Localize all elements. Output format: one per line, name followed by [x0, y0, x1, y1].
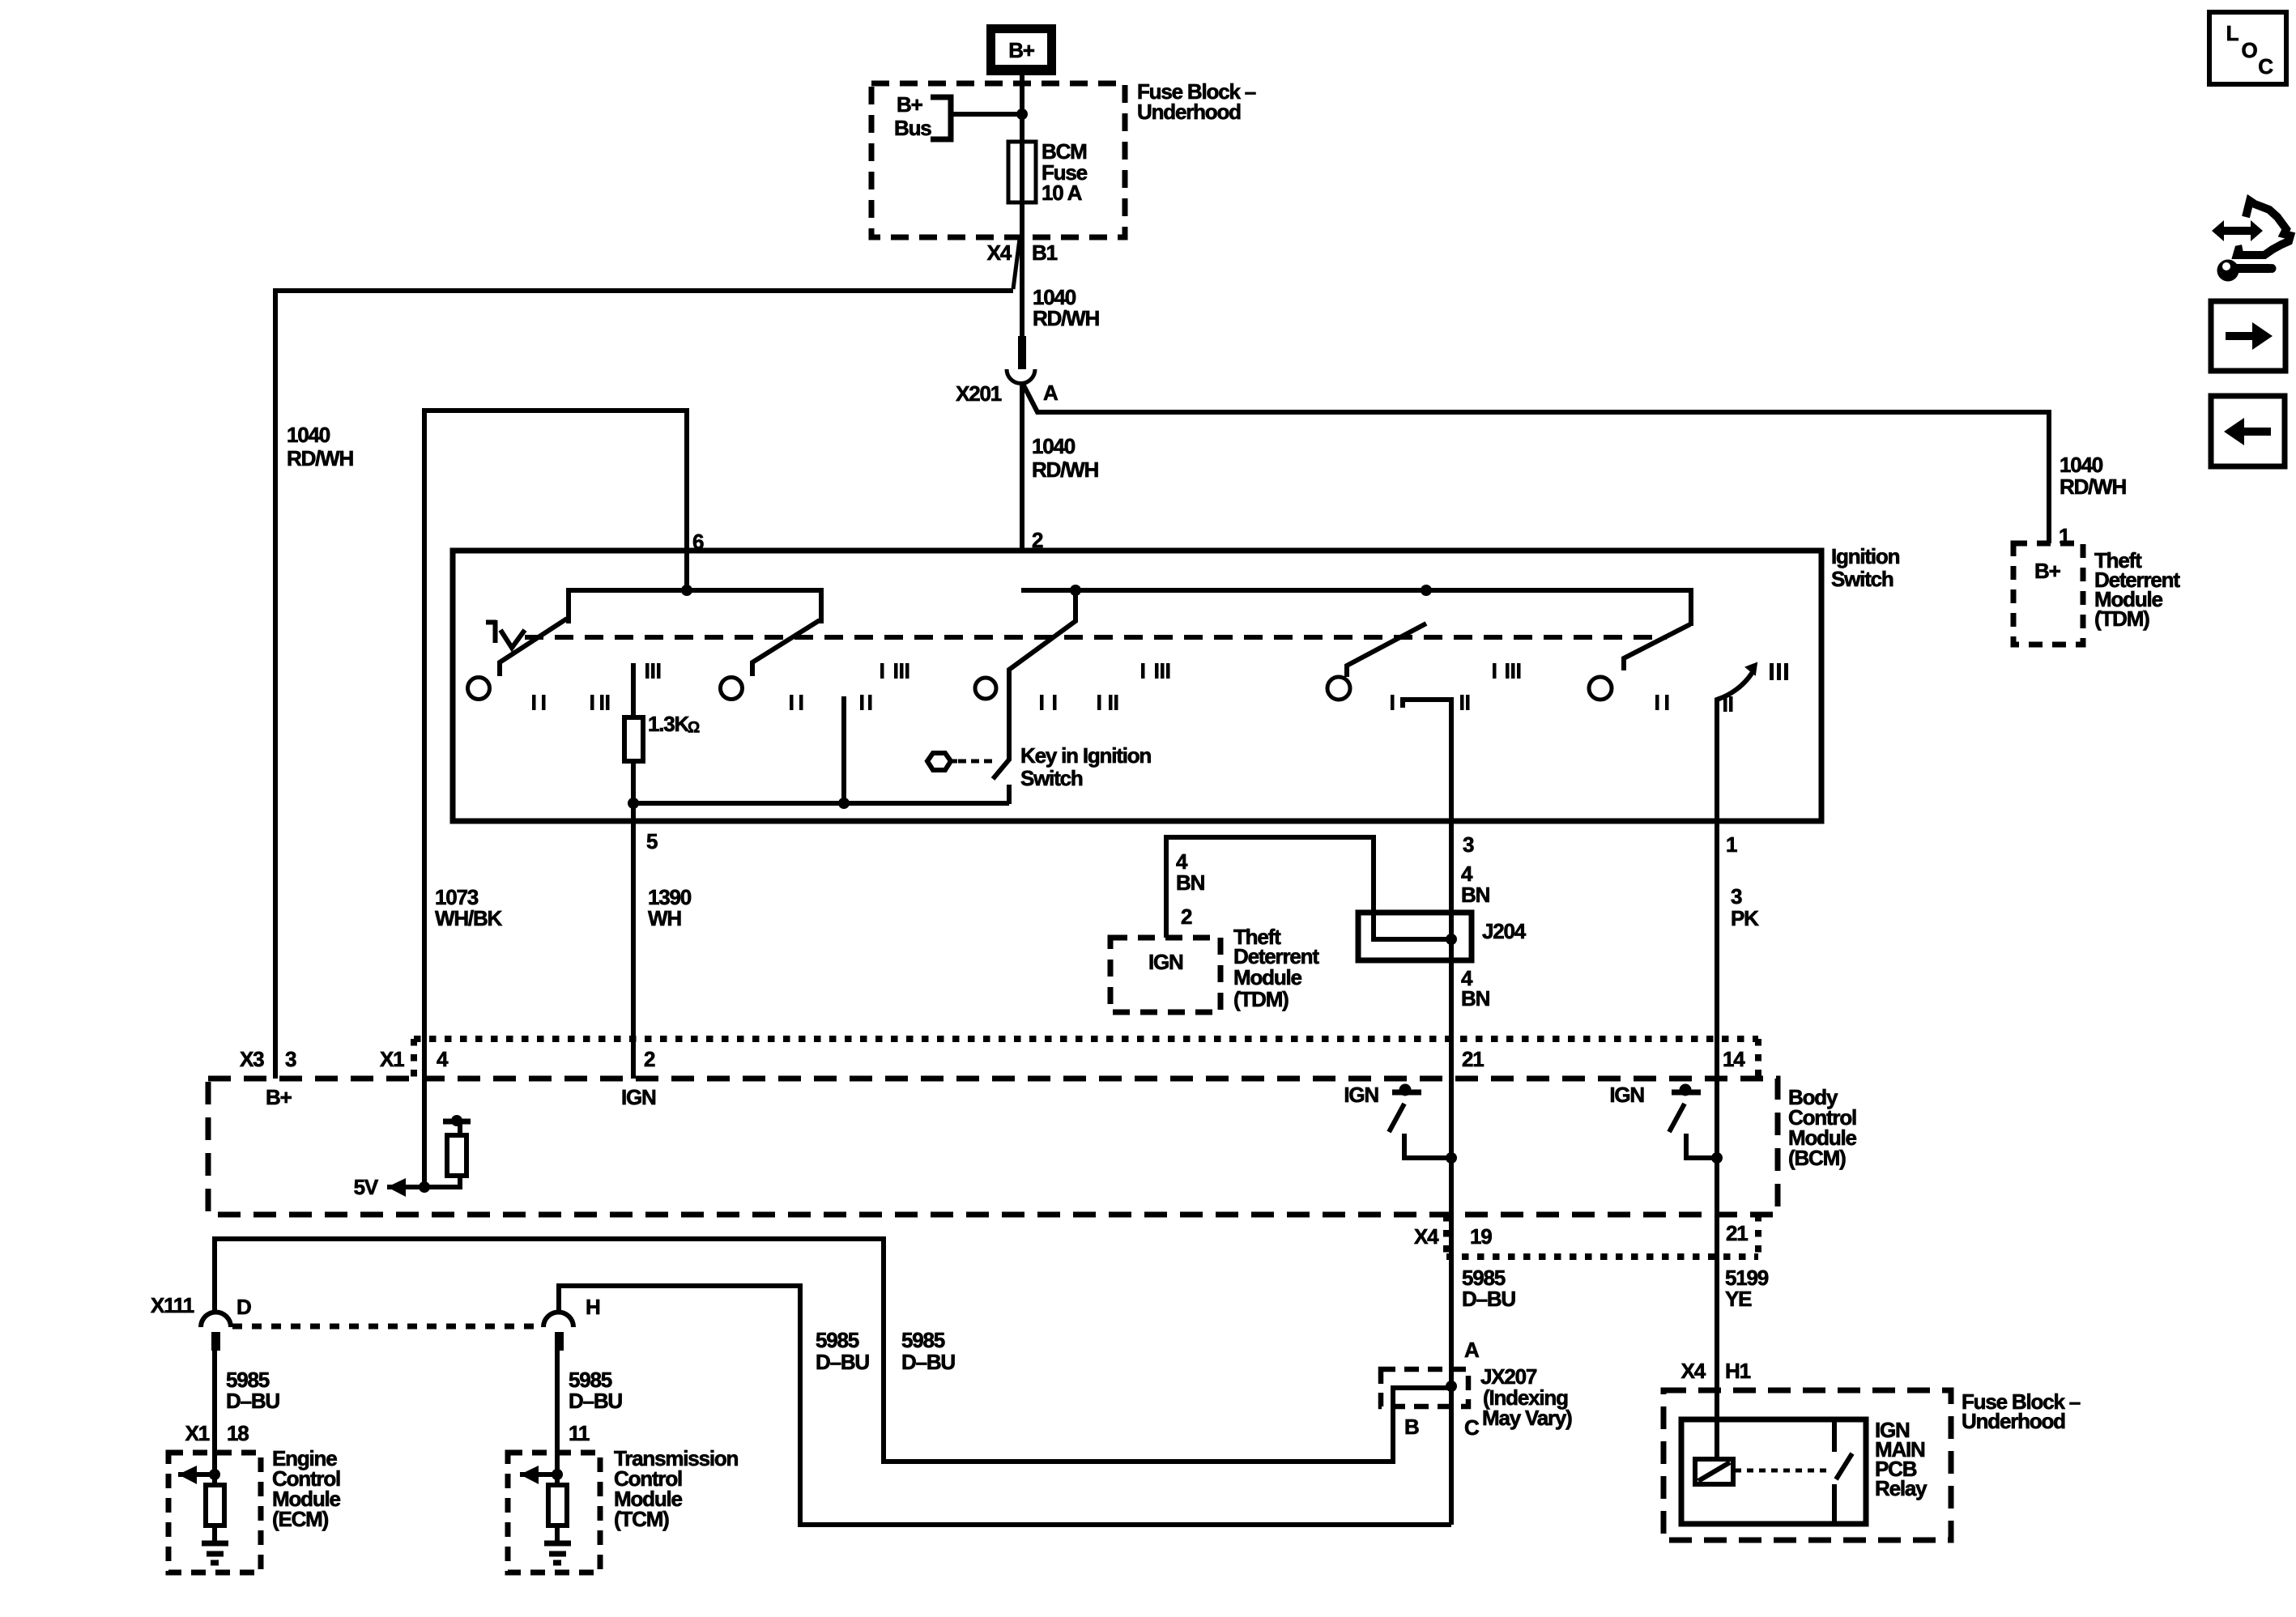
svg-text:X3: X3	[240, 1047, 264, 1071]
svg-text:2: 2	[1032, 528, 1043, 552]
svg-text:C: C	[1464, 1415, 1480, 1440]
svg-text:2: 2	[644, 1047, 655, 1071]
svg-text:Switch: Switch	[1020, 766, 1083, 790]
svg-text:4: 4	[437, 1047, 449, 1071]
svg-text:A: A	[1043, 381, 1059, 405]
svg-text:3: 3	[285, 1047, 296, 1071]
svg-text:(ECM): (ECM)	[272, 1507, 329, 1531]
svg-text:1040: 1040	[287, 423, 330, 447]
svg-text:BN: BN	[1461, 883, 1490, 907]
svg-text:PK: PK	[1731, 906, 1759, 930]
svg-text:Underhood: Underhood	[1137, 100, 1241, 124]
svg-text:5: 5	[646, 829, 658, 853]
svg-text:6: 6	[692, 530, 704, 554]
svg-text:BN: BN	[1176, 870, 1205, 895]
svg-text:B+: B+	[266, 1085, 292, 1109]
svg-text:Module: Module	[1233, 965, 1302, 989]
svg-text:A: A	[1464, 1338, 1480, 1362]
svg-text:Underhood: Underhood	[1962, 1409, 2065, 1433]
svg-text:1: 1	[1726, 832, 1737, 857]
svg-text:H1: H1	[1725, 1359, 1751, 1383]
svg-text:Relay: Relay	[1875, 1476, 1928, 1500]
svg-text:(TDM): (TDM)	[2094, 606, 2149, 631]
svg-text:X4: X4	[987, 240, 1012, 265]
svg-text:D–BU: D–BU	[569, 1389, 622, 1413]
svg-text:1: 1	[2059, 524, 2070, 548]
svg-text:B: B	[1404, 1415, 1419, 1439]
svg-text:X1: X1	[185, 1421, 210, 1445]
svg-text:D–BU: D–BU	[226, 1389, 279, 1413]
svg-text:(TCM): (TCM)	[614, 1507, 669, 1531]
svg-text:WH/BK: WH/BK	[435, 906, 503, 930]
svg-text:D–BU: D–BU	[1462, 1287, 1515, 1311]
svg-text:21: 21	[1462, 1047, 1484, 1071]
svg-text:RD/WH: RD/WH	[1033, 306, 1100, 330]
svg-text:(BCM): (BCM)	[1788, 1146, 1846, 1170]
svg-text:X4: X4	[1414, 1224, 1439, 1249]
svg-text:2: 2	[1181, 904, 1192, 929]
svg-text:WH: WH	[648, 906, 681, 930]
svg-text:19: 19	[1470, 1224, 1492, 1249]
svg-text:RD/WH: RD/WH	[1032, 457, 1099, 482]
svg-text:Ignition: Ignition	[1831, 544, 1900, 568]
svg-text:Switch: Switch	[1831, 567, 1893, 591]
svg-text:5V: 5V	[354, 1175, 379, 1199]
svg-text:O: O	[2241, 38, 2257, 62]
svg-text:Bus: Bus	[894, 116, 931, 140]
svg-text:X201: X201	[956, 381, 1002, 406]
svg-text:J204: J204	[1482, 919, 1527, 943]
svg-text:RD/WH: RD/WH	[2060, 474, 2127, 499]
svg-text:BN: BN	[1461, 986, 1490, 1011]
svg-text:D: D	[236, 1295, 251, 1319]
svg-text:H: H	[586, 1295, 600, 1319]
svg-text:18: 18	[227, 1421, 249, 1445]
svg-text:Ω: Ω	[688, 720, 700, 737]
svg-text:1040: 1040	[1032, 434, 1076, 458]
svg-text:D–BU: D–BU	[901, 1350, 955, 1374]
svg-text:B1: B1	[1032, 240, 1058, 265]
svg-text:Key in Ignition: Key in Ignition	[1020, 743, 1151, 768]
svg-text:(TDM): (TDM)	[1233, 987, 1289, 1011]
svg-text:IGN: IGN	[621, 1085, 656, 1109]
svg-text:X1: X1	[380, 1047, 404, 1071]
svg-text:X111: X111	[151, 1293, 194, 1317]
svg-text:14: 14	[1723, 1047, 1745, 1071]
svg-text:3: 3	[1463, 832, 1474, 857]
svg-text:5985: 5985	[901, 1328, 945, 1352]
svg-text:D–BU: D–BU	[816, 1350, 869, 1374]
svg-text:RD/WH: RD/WH	[287, 446, 354, 470]
svg-text:YE: YE	[1725, 1287, 1752, 1311]
svg-text:B+: B+	[1008, 38, 1035, 62]
svg-text:11: 11	[569, 1421, 590, 1445]
svg-text:21: 21	[1726, 1221, 1748, 1245]
svg-text:X4: X4	[1681, 1359, 1706, 1383]
svg-text:5985: 5985	[816, 1328, 859, 1352]
svg-text:IGN: IGN	[1609, 1083, 1644, 1107]
svg-text:B+: B+	[897, 92, 923, 117]
svg-text:L: L	[2226, 21, 2239, 45]
svg-text:1.3K: 1.3K	[648, 712, 690, 736]
svg-text:IGN: IGN	[1148, 950, 1183, 974]
svg-text:C: C	[2258, 54, 2273, 79]
svg-text:May Vary): May Vary)	[1482, 1406, 1572, 1430]
svg-text:IGN: IGN	[1344, 1083, 1378, 1107]
svg-text:3: 3	[1731, 884, 1742, 908]
svg-text:1040: 1040	[2060, 453, 2103, 477]
svg-text:10 A: 10 A	[1042, 181, 1083, 205]
svg-text:B+: B+	[2034, 559, 2061, 583]
